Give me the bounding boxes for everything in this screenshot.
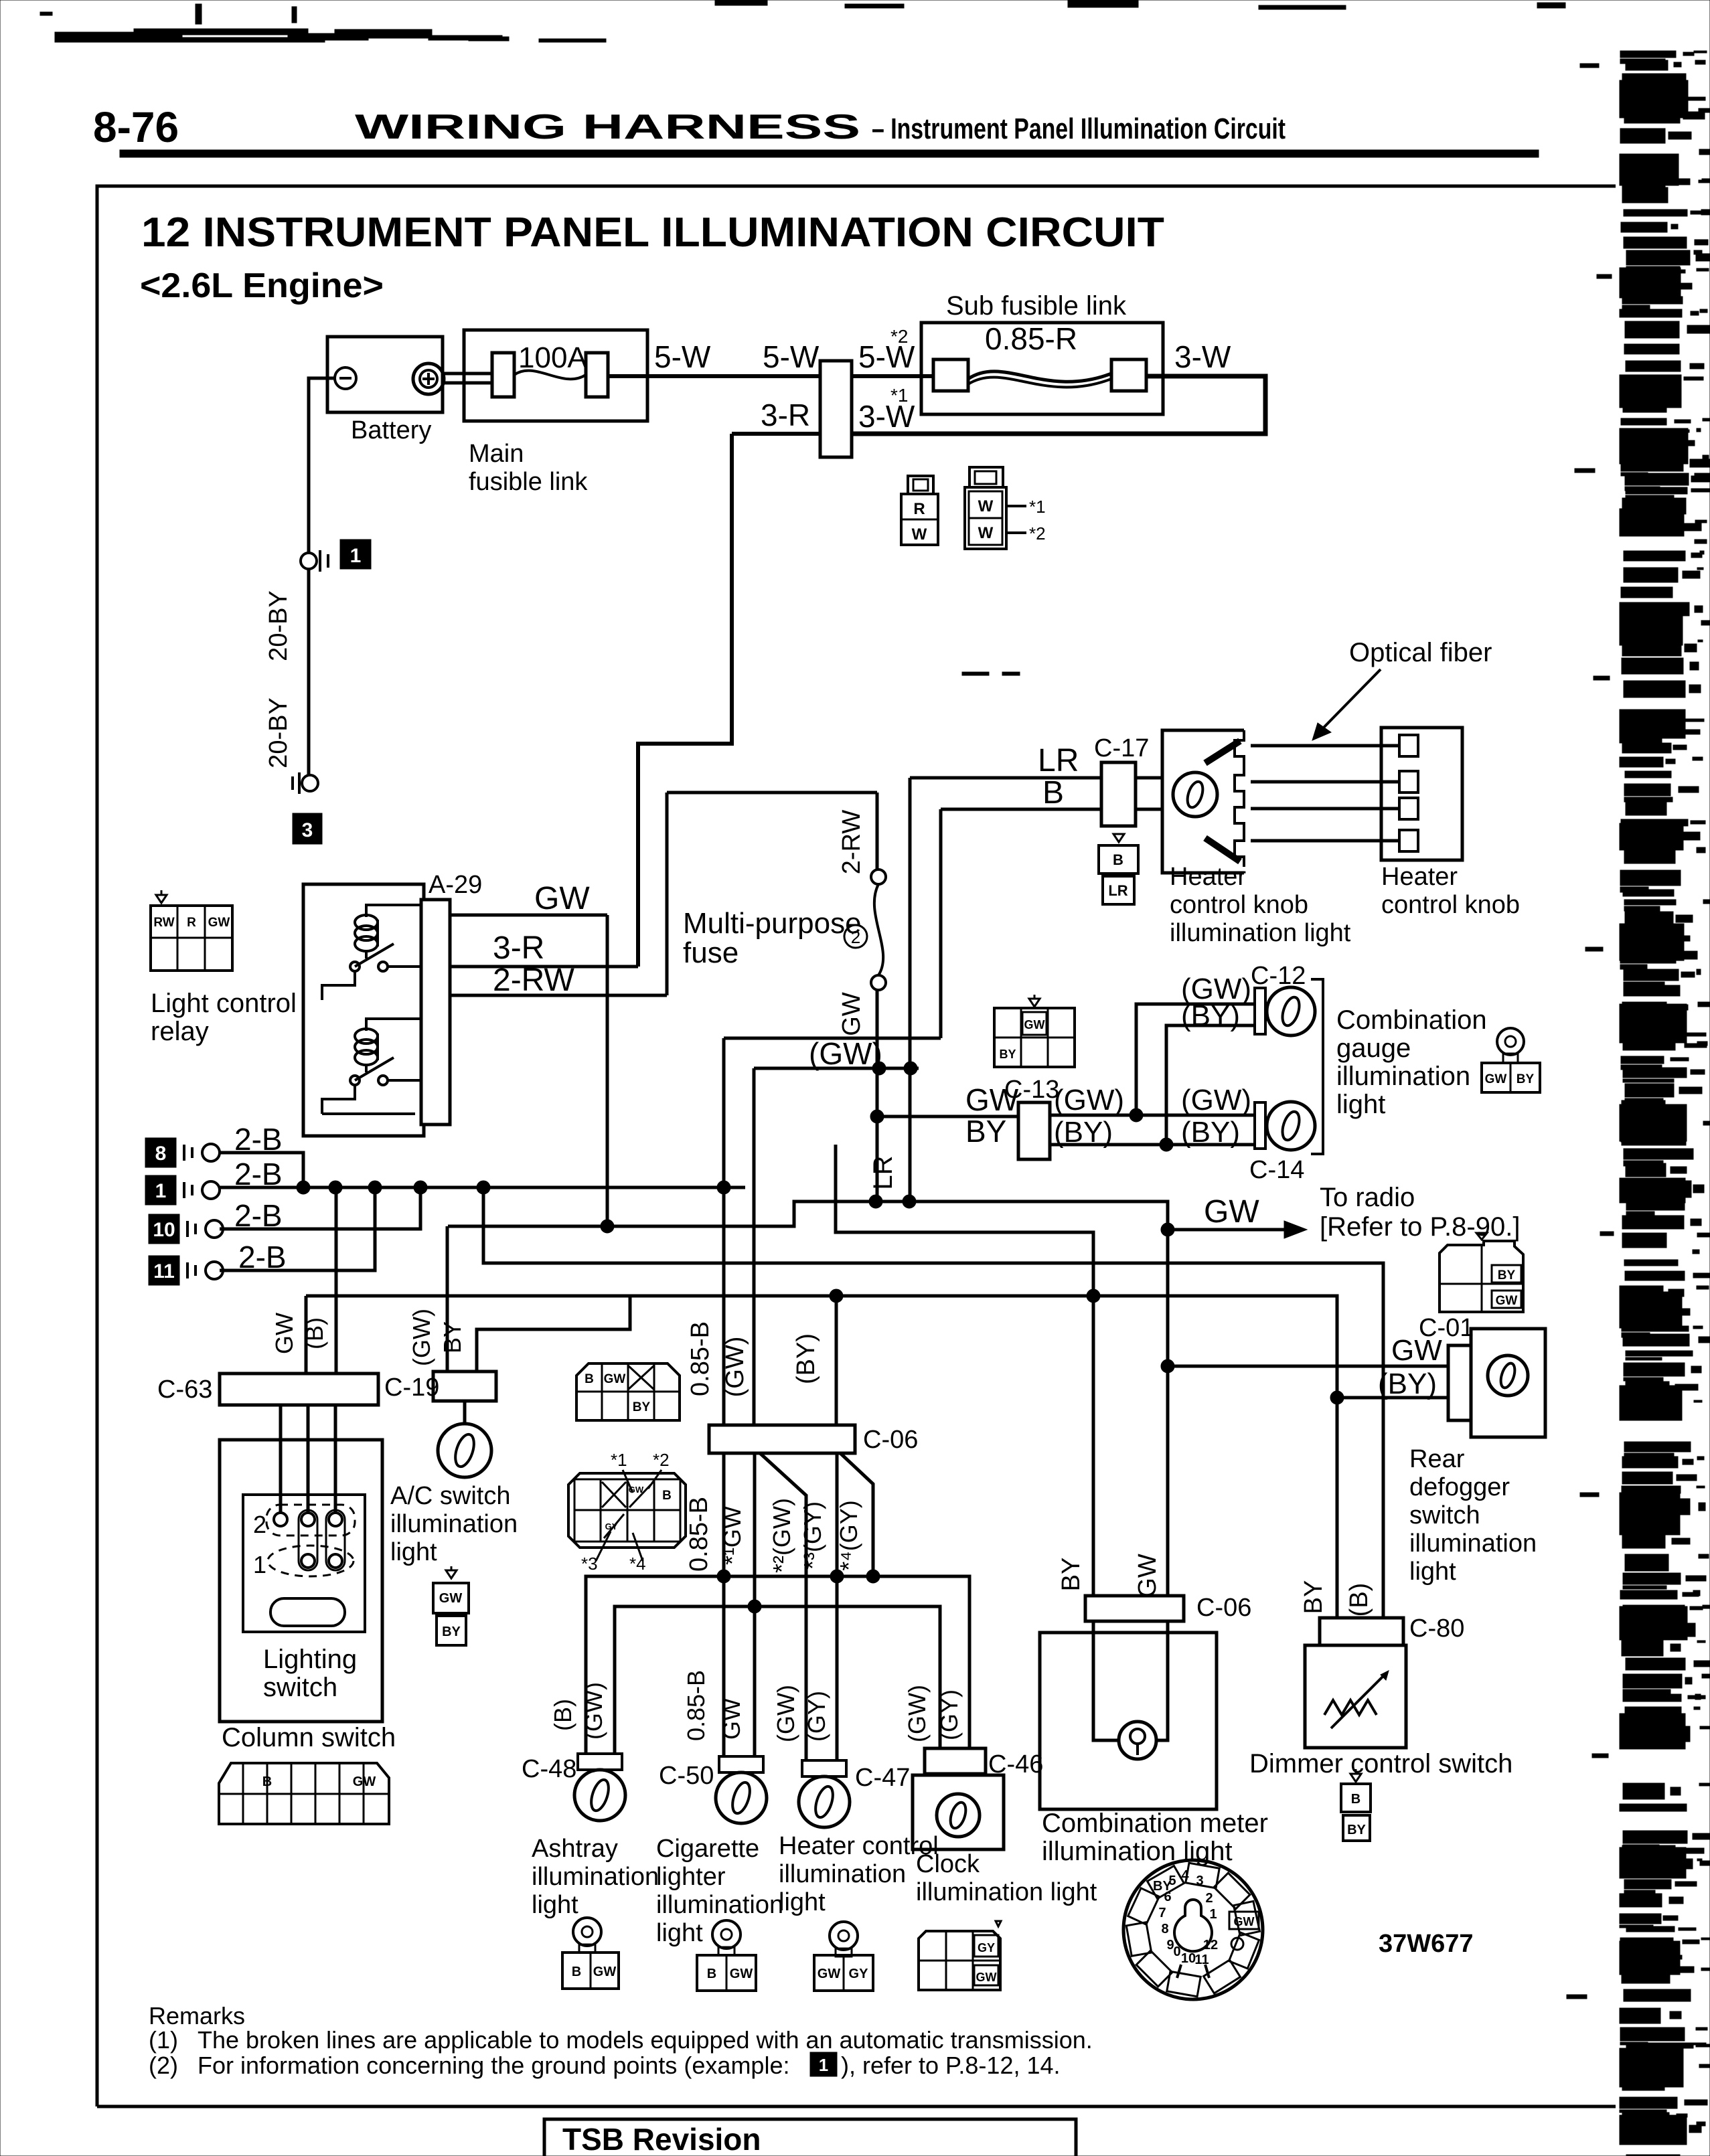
svg-text:C-19: C-19 — [384, 1374, 439, 1402]
svg-text:The broken lines are applicabl: The broken lines are applicable to model… — [198, 2026, 1093, 2054]
connector icon C-01 — [1476, 1233, 1487, 1240]
wire (BY) defogger — [1337, 1396, 1448, 1400]
svg-text:LR: LR — [868, 1155, 898, 1189]
svg-text:0.85-R: 0.85-R — [985, 321, 1077, 356]
svg-text:(BY): (BY) — [1181, 1116, 1240, 1149]
svg-text:B: B — [1113, 851, 1123, 868]
ground terminal 1 — [145, 1175, 176, 1205]
svg-text:For information concerning the: For information concerning the ground po… — [198, 2052, 789, 2079]
instrument cluster inset — [1123, 1860, 1263, 1999]
svg-text:light: light — [1336, 1090, 1385, 1119]
bulb clock — [937, 1794, 980, 1837]
junction bus2400 *1GW — [748, 1600, 761, 1613]
contact 2-3 — [329, 1513, 342, 1526]
BY dimmer bus — [306, 1296, 1337, 1618]
dashed contact group 2 — [266, 1505, 355, 1536]
connector icon heater GW/GY — [830, 1922, 858, 1950]
connector icon GW/BY mid — [1029, 999, 1040, 1007]
svg-text:11: 11 — [1194, 1953, 1209, 1967]
svg-text:C-06: C-06 — [863, 1426, 918, 1454]
svg-text:*4: *4 — [629, 1554, 646, 1574]
ground bus 2-B — [220, 1186, 745, 1189]
svg-text:light: light — [656, 1919, 703, 1947]
svg-text:*1: *1 — [611, 1450, 627, 1470]
clock box — [913, 1775, 1004, 1849]
svg-text:10: 10 — [153, 1219, 175, 1241]
svg-text:2: 2 — [253, 1511, 266, 1538]
wire (BY) down to C-06 — [835, 1296, 838, 1425]
svg-text:1: 1 — [1209, 1907, 1217, 1922]
svg-text:gauge: gauge — [1336, 1033, 1411, 1063]
wire (BY) to C-12 — [1166, 1025, 1255, 1145]
svg-text:11: 11 — [153, 1260, 175, 1282]
combination meter box — [1040, 1633, 1217, 1809]
svg-text:C-80: C-80 — [1409, 1614, 1464, 1643]
connector A-29 — [421, 900, 450, 1125]
svg-text:BY: BY — [633, 1400, 651, 1414]
connector C-14 — [1255, 1102, 1265, 1149]
svg-text:light: light — [779, 1888, 826, 1916]
svg-text:(2): (2) — [149, 2052, 178, 2079]
svg-text:0: 0 — [1173, 1944, 1180, 1959]
svg-text:A/C switch: A/C switch — [390, 1482, 510, 1510]
svg-text:B: B — [585, 1372, 594, 1386]
bracket combination gauge — [1311, 979, 1323, 1154]
wire GW from fuse — [876, 990, 879, 1201]
ground terminal 10 — [149, 1214, 179, 1244]
junction to radio — [1161, 1223, 1174, 1236]
svg-text:(B): (B) — [549, 1699, 576, 1731]
bulb C-50 cigarette lighter — [719, 1756, 763, 1772]
rear defogger switch box — [1471, 1329, 1545, 1437]
connector icon W/W — [969, 467, 1003, 487]
svg-text:GW: GW — [818, 1967, 841, 1981]
svg-text:8: 8 — [1161, 1922, 1168, 1936]
svg-text:3: 3 — [302, 819, 313, 841]
connector icon B/GW/X — [576, 1363, 680, 1420]
relay coil 2 — [355, 1029, 378, 1044]
wire 5-W — [608, 374, 820, 378]
dimmer rheostat — [1324, 1700, 1377, 1715]
svg-text:<2.6L Engine>: <2.6L Engine> — [140, 266, 384, 305]
wire 2-RW top link — [667, 791, 877, 795]
junction GW defogger — [1161, 1359, 1174, 1373]
svg-text:5-W: 5-W — [763, 339, 820, 374]
svg-text:1: 1 — [819, 2055, 828, 2075]
LR bus — [448, 1201, 1168, 1596]
wire (B) to C-63 — [335, 1187, 338, 1374]
connector C-80 — [1320, 1618, 1403, 1645]
knob pin lower — [1205, 838, 1240, 861]
svg-text:*2: *2 — [1029, 523, 1046, 544]
wire C-17 to knob b — [1136, 808, 1162, 811]
knob pin upper — [1205, 741, 1240, 763]
ground terminal 11 — [149, 1256, 179, 1285]
junction ground bus x453 — [297, 1181, 310, 1194]
junction bus2355 x1304 — [866, 1570, 880, 1583]
svg-text:Multi-purpose: Multi-purpose — [683, 907, 862, 940]
svg-text:BY: BY — [439, 1321, 466, 1353]
battery — [327, 337, 443, 412]
svg-text:illumination light: illumination light — [1170, 919, 1351, 947]
svg-text:GW: GW — [730, 1967, 753, 1981]
svg-text:(GW): (GW) — [408, 1309, 435, 1366]
svg-text:Heater: Heater — [1381, 863, 1458, 891]
svg-text:switch: switch — [1409, 1501, 1480, 1529]
junction LR/LR bus — [903, 1195, 916, 1208]
svg-text:1: 1 — [253, 1551, 266, 1578]
svg-text:GW: GW — [1485, 1072, 1507, 1086]
svg-text:BY: BY — [965, 1114, 1006, 1149]
svg-text:R: R — [913, 500, 925, 518]
wire C-19 to bulb — [463, 1401, 467, 1424]
svg-text:W: W — [912, 525, 927, 544]
svg-text:*1: *1 — [1029, 497, 1046, 517]
svg-text:C-06: C-06 — [1196, 1594, 1251, 1622]
svg-text:Main: Main — [469, 440, 524, 468]
wire lighting switch 1 — [279, 1405, 283, 1514]
junction ground bus x628 — [414, 1181, 427, 1194]
svg-text:switch: switch — [263, 1673, 337, 1702]
svg-text:*3: *3 — [581, 1554, 598, 1574]
scan artifacts top — [40, 0, 1565, 42]
connector C-12 — [1255, 988, 1265, 1034]
svg-text:GW: GW — [965, 1082, 1019, 1117]
svg-text:light: light — [532, 1891, 578, 1919]
junction LR/(GW) — [904, 1062, 917, 1075]
svg-text:C-17: C-17 — [1094, 734, 1149, 762]
junction bus2355 x1250 — [830, 1570, 844, 1583]
junction bus2355 x1081 — [717, 1570, 730, 1583]
svg-text:To radio: To radio — [1320, 1183, 1415, 1212]
svg-text:(GW): (GW) — [903, 1685, 931, 1742]
connector icon GW/BY below A/C — [446, 1570, 457, 1578]
wire *4(GY) — [840, 1453, 873, 1576]
wire 2-RW relay — [450, 994, 667, 997]
wire C-17 to knob a — [1136, 776, 1162, 780]
junction fuse GW/LR bus — [869, 1195, 882, 1208]
svg-text:(GW): (GW) — [772, 1685, 799, 1742]
column switch connector icon — [219, 1763, 389, 1824]
svg-text:GW: GW — [604, 1372, 626, 1386]
wire 20-BY lower — [307, 569, 311, 774]
connector rear defogger — [1448, 1345, 1471, 1420]
wire 3-R vertical — [638, 434, 732, 967]
svg-text:light: light — [390, 1538, 437, 1566]
svg-text:defogger: defogger — [1409, 1473, 1510, 1501]
junction BY/dimmer bus — [1087, 1289, 1100, 1303]
connector icon B/BY dimmer — [1350, 1774, 1361, 1782]
svg-text:GW: GW — [439, 1591, 463, 1606]
junction GW fuse/GW — [870, 1110, 884, 1123]
wire 5-W to sub link — [852, 374, 933, 378]
svg-text:37W677: 37W677 — [1379, 1930, 1474, 1958]
svg-text:B: B — [707, 1967, 716, 1981]
light control relay connector icon — [156, 895, 167, 903]
wire *2(GW) — [760, 1453, 806, 1760]
svg-text:(BY): (BY) — [1378, 1367, 1437, 1400]
heater control knob box — [1381, 728, 1462, 860]
optical fiber arrow — [1320, 669, 1381, 731]
svg-text:(GW): (GW) — [1181, 1084, 1251, 1116]
svg-text:3-R: 3-R — [761, 398, 810, 432]
svg-text:Ashtray: Ashtray — [532, 1835, 618, 1863]
svg-text:(GY): (GY) — [803, 1691, 830, 1742]
svg-text:GW: GW — [593, 1965, 617, 1979]
svg-text:Heater control: Heater control — [779, 1832, 939, 1860]
wire 20-BY battery negative — [309, 378, 335, 553]
svg-text:100A: 100A — [518, 341, 587, 374]
svg-text:control knob: control knob — [1381, 891, 1520, 919]
ground 1 — [301, 553, 317, 569]
svg-text:illumination: illumination — [656, 1891, 783, 1919]
svg-text:fuse: fuse — [683, 936, 739, 969]
svg-text:illumination: illumination — [1336, 1062, 1470, 1091]
contact 1-3 — [329, 1554, 342, 1568]
binding scan artifacts right edge — [1620, 51, 1710, 2156]
svg-text:(BY): (BY) — [1181, 999, 1240, 1032]
svg-text:illumination: illumination — [532, 1863, 659, 1891]
connector C-06 meter — [1085, 1596, 1184, 1621]
svg-text:2: 2 — [851, 927, 860, 947]
svg-text:LR: LR — [1038, 743, 1079, 778]
bus to C-48/C-46 lower — [615, 1606, 940, 1755]
bulb C-14 — [1267, 1102, 1315, 1150]
svg-text:BY: BY — [1498, 1268, 1516, 1282]
svg-text:20-BY: 20-BY — [264, 590, 293, 661]
svg-text:*¹GW: *¹GW — [718, 1506, 746, 1565]
junction connector — [820, 361, 852, 457]
connector icon R/W — [908, 476, 933, 494]
svg-text:(1): (1) — [149, 2026, 178, 2054]
wire B — [941, 808, 1101, 811]
bulb C-47 heater control — [802, 1760, 846, 1776]
svg-text:3-R: 3-R — [493, 930, 544, 966]
BY to C-19 — [477, 1296, 630, 1372]
contact 2-2 — [301, 1513, 315, 1526]
junction C-12 GW — [1130, 1108, 1143, 1122]
wire *3(GY) — [836, 1453, 839, 1760]
wire lighting switch 2 — [307, 1405, 310, 1514]
svg-text:*³(GY): *³(GY) — [799, 1501, 826, 1570]
svg-text:A-29: A-29 — [429, 871, 482, 899]
cluster small circle — [1231, 1938, 1243, 1950]
wire 2-B row10 — [220, 1187, 420, 1229]
svg-text:7: 7 — [1158, 1906, 1166, 1920]
connector icon cigarette B/GW — [712, 1920, 741, 1948]
svg-text:0.85-B: 0.85-B — [686, 1321, 714, 1396]
svg-text:GW: GW — [1234, 1915, 1255, 1928]
svg-text:GW: GW — [1024, 1018, 1045, 1031]
wire GW defogger — [1168, 1365, 1448, 1368]
svg-text:light: light — [1409, 1558, 1456, 1586]
svg-text:(B): (B) — [301, 1317, 328, 1349]
svg-text:2-RW: 2-RW — [838, 810, 866, 875]
svg-text:Combination meter: Combination meter — [1042, 1809, 1268, 1838]
heater control knob illumination light box — [1162, 730, 1244, 873]
svg-text:*1: *1 — [890, 385, 908, 406]
B dimmer line — [483, 1187, 1383, 1618]
switch capsule 3 — [326, 1510, 345, 1570]
svg-text:relay: relay — [151, 1017, 209, 1046]
svg-text:fusible link: fusible link — [469, 468, 588, 496]
svg-text:5: 5 — [1168, 1874, 1176, 1888]
svg-text:illumination: illumination — [1409, 1529, 1537, 1558]
optical fibers — [1251, 744, 1418, 748]
svg-text:BY: BY — [1347, 1823, 1366, 1837]
junction C-12 BY — [1160, 1138, 1173, 1151]
svg-text:Clock: Clock — [916, 1850, 980, 1878]
svg-text:Sub fusible link: Sub fusible link — [946, 291, 1127, 321]
sub fusible link box — [921, 323, 1163, 414]
svg-text:20-BY: 20-BY — [264, 697, 293, 768]
switch oval — [270, 1598, 345, 1626]
wire GW to C-63 — [305, 1296, 308, 1374]
junction BY defogger — [1330, 1391, 1344, 1404]
wire 2-B row11 — [220, 1187, 375, 1270]
bulb C-12 — [1267, 987, 1315, 1035]
contact 2-1 — [274, 1513, 287, 1526]
svg-text:R: R — [187, 916, 196, 930]
bulb heater control knob — [1173, 772, 1217, 817]
contact 1-2 — [301, 1554, 315, 1568]
wire 2-RW riser — [666, 793, 669, 995]
svg-text:lighter: lighter — [656, 1863, 726, 1891]
svg-text:– Instrument Panel Illuminatio: – Instrument Panel Illumination Circuit — [872, 112, 1286, 145]
bus to C-48/C-46 upper — [586, 1576, 969, 1755]
svg-text:B: B — [662, 1489, 672, 1503]
bulb C-48 ashtray — [578, 1754, 622, 1770]
svg-text:C-63: C-63 — [157, 1376, 212, 1404]
relay coil 1 — [355, 915, 378, 930]
svg-text:GW: GW — [208, 916, 230, 930]
wire meter bulb left — [1093, 1621, 1119, 1740]
svg-text:), refer to P.8-12, 14.: ), refer to P.8-12, 14. — [841, 2052, 1061, 2079]
svg-text:0.85-B: 0.85-B — [682, 1670, 710, 1741]
bulb A/C switch — [438, 1424, 491, 1477]
svg-text:6: 6 — [1164, 1890, 1171, 1904]
svg-text:Combination: Combination — [1336, 1005, 1487, 1035]
svg-text:8: 8 — [155, 1143, 167, 1165]
bulb rear defogger — [1488, 1355, 1528, 1396]
wire 3-W loop — [852, 376, 1265, 434]
connector C-46 — [925, 1748, 986, 1774]
header rule — [120, 150, 1539, 157]
svg-text:Heater: Heater — [1170, 863, 1246, 891]
connector icon ashtray B/GW — [573, 1918, 601, 1946]
wire lighting switch 3 — [334, 1405, 337, 1514]
svg-text:GW: GW — [976, 1971, 997, 1984]
connector icon clock GY/GW — [996, 1921, 1001, 1926]
svg-text:GW: GW — [1496, 1294, 1518, 1308]
wire LR — [910, 776, 1101, 780]
svg-text:B: B — [262, 1774, 272, 1789]
svg-text:0.85-B: 0.85-B — [685, 1497, 713, 1572]
svg-text:GY: GY — [849, 1967, 869, 1981]
svg-text:TSB Revision: TSB Revision — [562, 2122, 761, 2156]
wire (GW) to C-12 — [1136, 1004, 1255, 1115]
connector C-06 — [709, 1425, 855, 1453]
wire B vertical — [939, 809, 943, 1038]
svg-text:(BY): (BY) — [1054, 1116, 1113, 1149]
svg-text:(B): (B) — [1345, 1583, 1373, 1617]
cluster bulb — [1174, 1900, 1212, 1951]
junction GW fuse/(GW) — [872, 1062, 886, 1075]
svg-text:W: W — [978, 497, 994, 515]
svg-text:2-RW: 2-RW — [493, 963, 574, 998]
svg-text:(GY): (GY) — [935, 1689, 963, 1740]
svg-text:LR: LR — [1108, 882, 1128, 899]
dimmer control switch box — [1305, 1645, 1406, 1748]
svg-text:[Refer to P.8-90.]: [Refer to P.8-90.] — [1320, 1212, 1520, 1242]
svg-text:BY: BY — [1300, 1580, 1328, 1614]
svg-text:3: 3 — [1196, 1874, 1203, 1888]
svg-text:(GW): (GW) — [809, 1036, 882, 1071]
relay contact 2 — [350, 1076, 360, 1085]
wire (GW) down to C-06 — [753, 1068, 756, 1425]
svg-text:GW: GW — [270, 1313, 298, 1354]
wire 3-R top — [732, 432, 820, 436]
svg-text:RW: RW — [153, 916, 174, 930]
relay contact 1 — [350, 962, 360, 971]
svg-text:5-W: 5-W — [654, 339, 711, 374]
fuse terminal upper — [871, 869, 886, 884]
svg-text:3-W: 3-W — [1174, 339, 1231, 374]
svg-text:8-76: 8-76 — [93, 103, 179, 151]
svg-text:Lighting: Lighting — [263, 1645, 357, 1674]
svg-text:C-14: C-14 — [1249, 1156, 1304, 1184]
svg-text:BY: BY — [442, 1625, 461, 1639]
svg-text:illumination light: illumination light — [916, 1878, 1097, 1906]
svg-text:2: 2 — [1205, 1891, 1213, 1906]
svg-text:GY: GY — [605, 1521, 618, 1531]
svg-text:GW: GW — [838, 992, 866, 1036]
wire fuse upper — [876, 793, 879, 870]
svg-text:C-12: C-12 — [1251, 962, 1306, 990]
svg-text:4: 4 — [1181, 1868, 1189, 1883]
connector icon B/LR — [1113, 834, 1124, 842]
wire (GW) to C-19 — [446, 1226, 449, 1372]
connector icon *1-*4 — [568, 1473, 686, 1548]
column switch box — [220, 1440, 382, 1722]
svg-text:Optical fiber: Optical fiber — [1349, 638, 1492, 667]
svg-text:12: 12 — [1203, 1938, 1218, 1953]
junction ground bus x722 — [477, 1181, 490, 1194]
svg-text:C-48: C-48 — [522, 1755, 576, 1783]
svg-text:Column switch: Column switch — [222, 1723, 396, 1752]
wire 2-B row8 — [220, 1153, 303, 1187]
junction ground bus x1081 — [717, 1181, 730, 1194]
wire 3-R relay — [450, 965, 638, 969]
svg-text:Cigarette: Cigarette — [656, 1835, 759, 1863]
svg-text:1: 1 — [350, 545, 362, 567]
ground 3 — [302, 775, 318, 791]
svg-text:B: B — [1351, 1792, 1361, 1807]
wire *1GW vertical — [753, 1453, 757, 1756]
fuse element — [874, 884, 883, 975]
relay lower wire — [322, 1112, 415, 1115]
svg-text:GW: GW — [1134, 1554, 1162, 1598]
svg-text:GW: GW — [718, 1698, 745, 1740]
svg-text:BY: BY — [999, 1048, 1016, 1061]
wire LR vertical — [909, 778, 912, 1201]
svg-text:Remarks: Remarks — [149, 2002, 245, 2029]
TSB revision box — [544, 2119, 1076, 2156]
connector icon GW|BY right — [1497, 1028, 1524, 1055]
wire battery to fuse a — [444, 372, 492, 376]
junction ground bus x501 — [329, 1181, 342, 1194]
svg-text:WIRING HARNESS: WIRING HARNESS — [355, 108, 860, 147]
